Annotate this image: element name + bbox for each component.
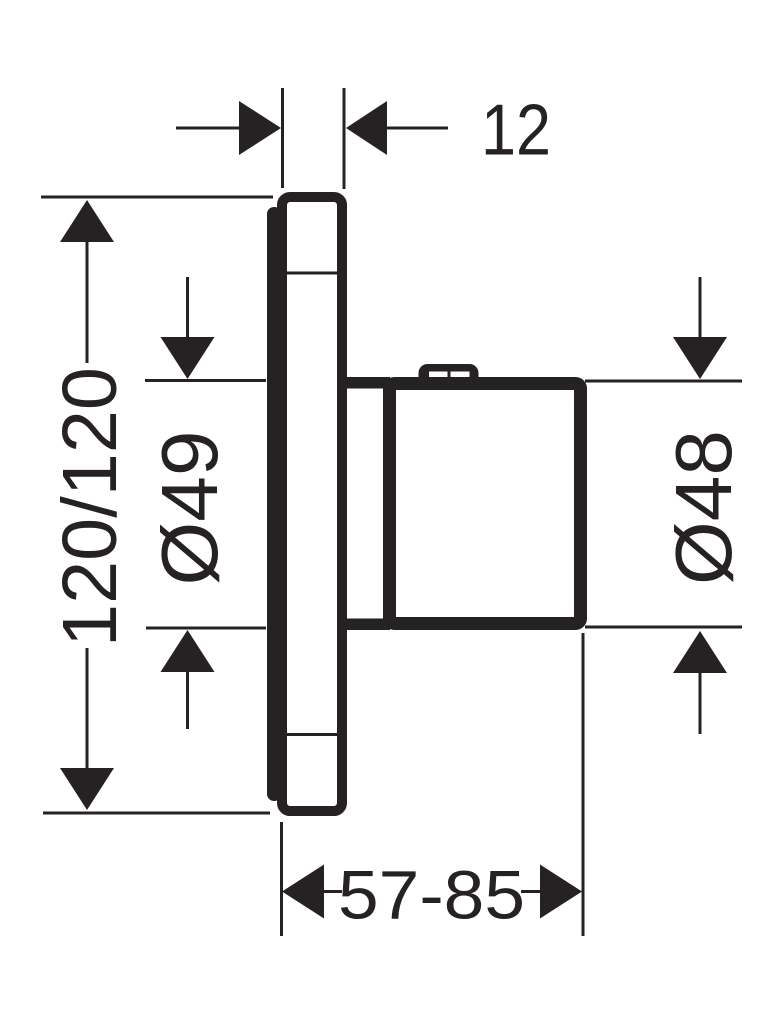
- dimension 12: left arrow: [239, 101, 281, 155]
- handle neck top bar: [342, 377, 390, 389]
- dimension D48: up arrow: [673, 631, 727, 673]
- dimension 12: right extension line: [343, 88, 346, 189]
- handle neck bottom bar: [342, 619, 390, 631]
- dimension D49: top extension line: [145, 379, 266, 382]
- dimension 57-85: left dim line stub: [323, 890, 342, 893]
- dimension 12: right dim line: [387, 127, 448, 130]
- dimension D49: up arrow: [161, 630, 215, 672]
- dimension 120/120: upper dim line: [86, 241, 89, 363]
- dimension D48: lower dim line: [699, 672, 702, 734]
- dimension D48: label: [659, 430, 748, 585]
- faceplate flange bar: [267, 207, 282, 801]
- dimension D48: upper dim line: [699, 277, 702, 338]
- handle grip tab: [419, 364, 479, 395]
- dimension 120/120: lower dim line: [86, 648, 89, 769]
- dimension D49: upper dim line: [186, 277, 189, 338]
- dimension D49: down arrow: [161, 337, 215, 379]
- dimension D49: label: [145, 431, 234, 586]
- faceplate bottom interior line: [285, 733, 343, 736]
- dimension 12: label: [481, 91, 551, 171]
- dimension 57-85: right arrow: [540, 865, 582, 919]
- dimension 57-85: label: [338, 857, 525, 934]
- handle body outline: [390, 384, 581, 624]
- dimension D49: lower dim line: [186, 671, 189, 729]
- dimension 120/120: label: [47, 367, 133, 647]
- dimension 57-85: left extension line: [280, 822, 283, 936]
- dimension 12: right arrow: [346, 101, 387, 155]
- dimension 120/120: down arrow: [60, 768, 114, 810]
- faceplate top interior line: [285, 272, 343, 275]
- svg-text:12: 12: [481, 91, 551, 171]
- dimension 57-85: left arrow: [282, 865, 324, 919]
- dimension 120/120: up arrow: [60, 200, 114, 242]
- dimension D48: down arrow: [673, 337, 727, 379]
- dimension 57-85: right dim line stub: [521, 890, 541, 893]
- dimension D48: top extension line: [585, 380, 742, 383]
- dimension 120/120: top extension line: [41, 196, 273, 199]
- dimension D49: bottom extension line: [146, 627, 266, 630]
- faceplate outline: [282, 197, 342, 811]
- dimension 120/120: bottom extension line: [43, 812, 270, 815]
- svg-text:57-85: 57-85: [338, 857, 525, 934]
- dimension D48: bottom extension line: [585, 626, 742, 629]
- svg-text:120/120: 120/120: [47, 367, 133, 647]
- svg-text:Ø49: Ø49: [145, 431, 234, 586]
- dimension 57-85: right extension line: [582, 633, 585, 936]
- dimension 12: left dim line: [176, 127, 240, 130]
- dimension 12: left extension line: [281, 88, 284, 188]
- svg-text:Ø48: Ø48: [659, 430, 748, 585]
